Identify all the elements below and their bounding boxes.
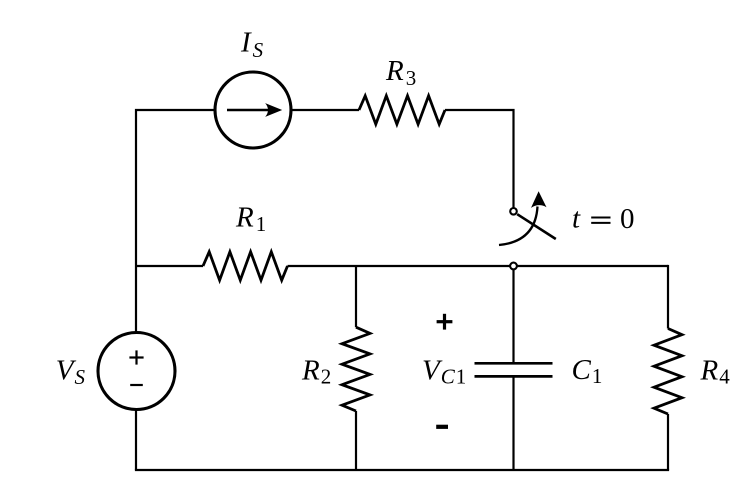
current source U I_S [215,72,291,148]
svg-text:VS: VS [56,355,86,389]
node: switch bottom junction [510,263,517,270]
wire: capacitor branch bottom [512,376,514,470]
plus sign in V_S [129,356,143,358]
wire: left rail between middle wire and V_S [135,266,137,332]
wire: middle wire left of R1 [136,265,203,267]
voltage source U V_S [98,333,175,410]
wire: capacitor branch top [512,269,514,363]
wire: top wire from current source to R3 [292,109,360,111]
svg-text:R2: R2 [301,354,332,388]
resistor R4 [654,329,682,415]
svg-text:t: t [572,203,581,235]
capacitor C1 bottom plate [475,375,553,378]
svg-text:R1: R1 [235,201,268,236]
wire: V_S bottom to bottom rail [135,410,137,470]
switch top terminal [510,208,517,215]
wire: middle wire right of R1 to right rail [288,265,669,267]
wire: bottom rail [135,469,669,471]
wire: R2 branch bottom [355,411,357,470]
resistor R2 [342,327,370,411]
svg-text:R4: R4 [700,354,731,388]
arrow inside I_S [227,109,269,111]
svg-text:VC1: VC1 [422,355,467,389]
minus polarity mark below V_C1 [436,425,448,429]
capacitor C1 top plate [475,362,553,365]
svg-text:IS: IS [240,26,265,61]
switch arrow head [531,191,547,208]
wire: R2 branch top [355,266,357,327]
minus sign in V_S [130,384,143,386]
wire: R4 branch bottom [667,414,669,470]
switch blade [517,214,556,239]
svg-text:R3: R3 [385,55,418,90]
resistor R1 [203,252,288,280]
plus polarity mark above V_C1 [437,320,453,323]
wire: left rail top segment [136,110,215,266]
wire: R4 branch top [667,265,669,329]
svg-text:C1: C1 [572,354,604,388]
resistor R3 [359,96,445,124]
switch motion arc [499,207,538,246]
wire: top-right corner down to switch terminal [445,110,514,208]
svg-text:0: 0 [620,203,635,235]
